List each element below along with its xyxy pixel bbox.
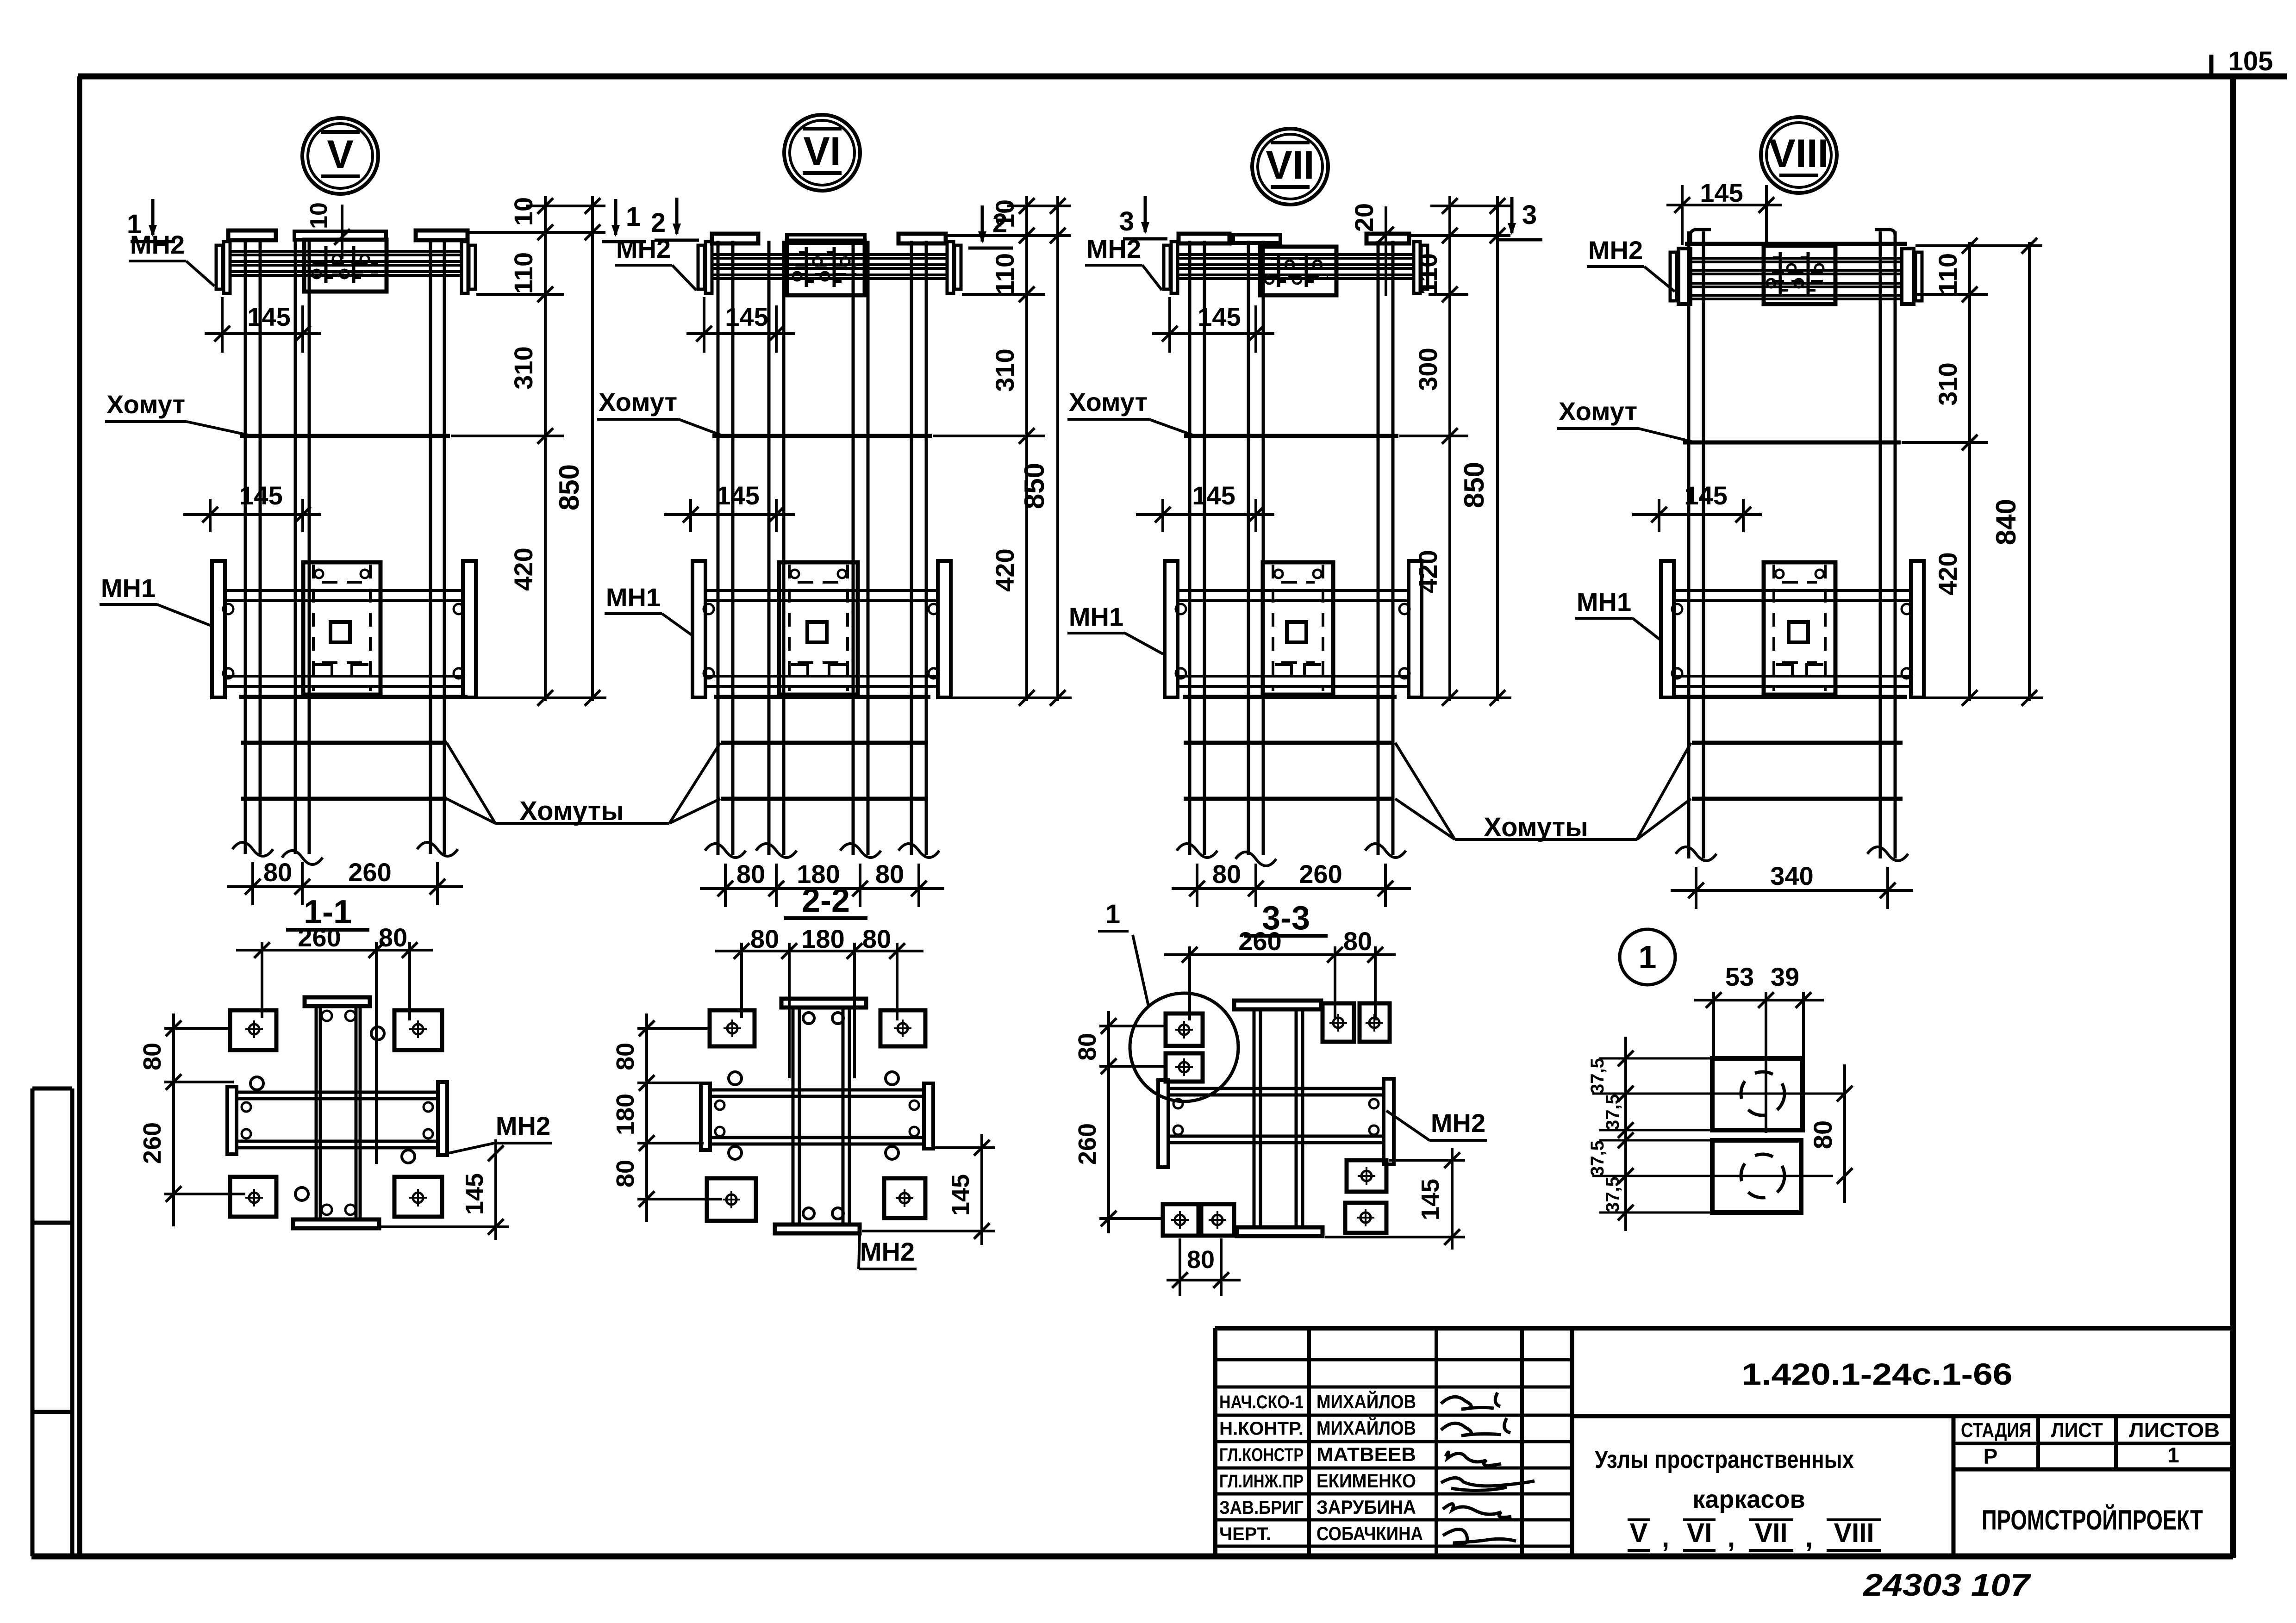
svg-text:260: 260 — [1238, 927, 1281, 956]
svg-text:145: 145 — [947, 1174, 974, 1216]
lower khomut ties of V — [241, 743, 447, 799]
svg-text:Хомуты: Хомуты — [1484, 812, 1588, 842]
svg-text:80: 80 — [1212, 859, 1241, 889]
svg-text:ЕКИМЕНКО: ЕКИМЕНКО — [1316, 1470, 1416, 1492]
section 3-3 beam MH2 — [1158, 1079, 1394, 1167]
svg-text:340: 340 — [1770, 861, 1813, 890]
section title 1-1 — [286, 894, 369, 931]
svg-text:110: 110 — [1933, 253, 1962, 295]
dim 145 upper of VI — [686, 297, 795, 353]
svg-text:310: 310 — [990, 348, 1019, 392]
svg-text:20: 20 — [1349, 203, 1379, 232]
dim 145 upper of VII — [1152, 297, 1274, 353]
section title 3-3 — [1244, 900, 1328, 937]
label Khomut of V — [105, 390, 248, 435]
section 2-2 label MH2 — [859, 1234, 917, 1269]
section 1-1 corner plate BL — [230, 1177, 276, 1217]
svg-text:V: V — [1630, 1518, 1648, 1548]
svg-text:37,5: 37,5 — [1603, 1176, 1623, 1213]
section 3-3 plates BL pair — [1163, 1204, 1234, 1236]
view circle V — [302, 118, 378, 194]
svg-text:3: 3 — [1522, 200, 1537, 230]
section mark 2 right of VI — [968, 205, 1013, 248]
svg-text:,: , — [1805, 1523, 1813, 1553]
svg-text:37,5: 37,5 — [1603, 1094, 1623, 1130]
section 3-3 label MH2 — [1386, 1108, 1487, 1140]
bottom dims of VIII — [1671, 861, 1913, 909]
elevation VII top splice box — [1260, 247, 1336, 295]
svg-text:145: 145 — [1416, 1179, 1444, 1220]
section mark 3 left of VII — [1119, 196, 1167, 239]
MH1 splice assembly of VII — [1165, 561, 1422, 697]
label Khomut of VIII — [1557, 397, 1691, 442]
svg-text:МН2: МН2 — [1086, 234, 1141, 263]
elevation VII column 3 — [1378, 241, 1393, 855]
svg-text:Хомут: Хомут — [106, 390, 185, 419]
svg-text:ЗАРУБИНА: ЗАРУБИНА — [1316, 1496, 1416, 1518]
section 3-3 plates TR pair — [1323, 1003, 1390, 1042]
svg-text:ЛИСТОВ: ЛИСТОВ — [2129, 1419, 2220, 1442]
elevation V dim 10 top centre — [306, 202, 350, 259]
svg-text:39: 39 — [1771, 962, 1799, 991]
svg-text:VII: VII — [1755, 1518, 1788, 1548]
khomut tie line of VI — [712, 434, 932, 438]
khomut tie line of VIII — [1683, 441, 1901, 445]
section 1-1 left dim chain — [138, 1014, 245, 1226]
section 1-1 label MH2 — [448, 1111, 552, 1153]
svg-text:145: 145 — [725, 302, 768, 331]
svg-text:МН1: МН1 — [101, 573, 156, 603]
svg-text:420: 420 — [990, 548, 1019, 591]
svg-text:105: 105 — [2228, 46, 2273, 76]
elevation V column 2 — [295, 241, 309, 854]
svg-text:260: 260 — [1073, 1123, 1101, 1165]
MH1 splice assembly of VIII — [1661, 561, 1924, 697]
svg-text:2-2: 2-2 — [802, 882, 850, 919]
label Khomut of VII — [1067, 387, 1192, 435]
svg-text:Хомут: Хомут — [1069, 387, 1148, 417]
svg-text:МН1: МН1 — [1577, 587, 1631, 616]
label Khomuty between V and VI — [447, 743, 720, 826]
view circle VI — [784, 115, 860, 191]
svg-text:МН1: МН1 — [606, 583, 661, 612]
svg-text:145: 145 — [716, 481, 759, 510]
detail 1 dim chain 53 39 — [1694, 962, 1824, 1133]
dim 145 lower of V — [183, 481, 321, 532]
svg-text:80: 80 — [875, 859, 904, 889]
svg-text:37,5: 37,5 — [1587, 1140, 1608, 1176]
elevation VII column 2 — [1248, 241, 1263, 855]
svg-text:80: 80 — [736, 859, 765, 889]
label MH2 of VII — [1085, 234, 1162, 290]
svg-text:1: 1 — [2167, 1443, 2179, 1467]
right dims of V — [451, 196, 606, 706]
frame left border — [77, 76, 82, 1558]
svg-text:80: 80 — [379, 923, 407, 952]
svg-text:260: 260 — [1299, 859, 1342, 889]
svg-text:840: 840 — [1990, 499, 2021, 545]
section 3-3 left dim chain — [1073, 1011, 1166, 1233]
section 3-3 bottom dim 80 — [1167, 1238, 1241, 1296]
column break marks of VII — [1177, 844, 1406, 866]
svg-text:80: 80 — [611, 1160, 639, 1188]
elevation VI column 2 — [769, 241, 784, 855]
label MH2 of VI — [615, 234, 696, 290]
detail 1 right dim 80 — [1808, 1064, 1853, 1203]
label MH2 of VIII — [1587, 236, 1675, 292]
elevation VI column 4 — [911, 241, 926, 855]
elevation V column 3 — [430, 241, 444, 854]
svg-text:ЗАВ.БРИГ: ЗАВ.БРИГ — [1219, 1498, 1304, 1518]
section 1-1 top dim chain — [236, 923, 433, 1164]
svg-text:80: 80 — [862, 924, 891, 953]
svg-text:Н.КОНТР.: Н.КОНТР. — [1219, 1418, 1304, 1439]
section 2-2 column I-beam — [775, 999, 866, 1233]
section mark 1 left of V — [127, 199, 175, 242]
section 2-2 loose bolts — [729, 1013, 898, 1219]
section 2-2 beam MH2 — [701, 1083, 933, 1150]
MH1 splice assembly of VI — [693, 561, 951, 697]
svg-text:Узлы пространственных: Узлы пространственных — [1595, 1446, 1854, 1474]
svg-text:80: 80 — [263, 858, 292, 887]
svg-text:МИХАЙЛОВ: МИХАЙЛОВ — [1316, 1390, 1416, 1412]
column break marks of V — [232, 842, 458, 864]
MH1 bottom chord line of VII — [1183, 695, 1397, 699]
elevation VIII column 2 — [1880, 231, 1895, 858]
svg-text:80: 80 — [611, 1043, 639, 1070]
elevation V MH2 cap assembly — [216, 230, 475, 293]
svg-text:VI: VI — [803, 129, 841, 174]
title block stadia headers — [1961, 1419, 2220, 1442]
dim 145 lower of VII — [1136, 481, 1274, 532]
svg-text:850: 850 — [554, 464, 585, 510]
bottom dims of VI — [700, 859, 944, 907]
title block middle divider — [1572, 1414, 2233, 1418]
section 3-3 detail circle 1 — [1098, 899, 1238, 1101]
elevation V top splice box — [304, 240, 387, 292]
section 2-2 top dim chain — [715, 924, 923, 1078]
right dims of VI — [933, 196, 1072, 706]
svg-text:ГЛ.КОНСТР: ГЛ.КОНСТР — [1219, 1445, 1304, 1465]
svg-text:1: 1 — [1639, 939, 1657, 975]
section 1-1 beam MH2 — [227, 1082, 447, 1155]
section 3-3 plates BR pair — [1345, 1160, 1386, 1233]
left attachment table — [32, 1088, 72, 1556]
svg-text:10: 10 — [990, 199, 1019, 228]
svg-text:310: 310 — [1933, 362, 1962, 405]
svg-text:МН2: МН2 — [496, 1111, 550, 1140]
title block doc number — [1742, 1357, 2013, 1391]
section 3-3 dim 145 right — [1325, 1148, 1465, 1250]
lower khomut ties of VI — [721, 743, 928, 799]
section 1-1 column I-beam — [293, 997, 379, 1228]
section 1-1 corner plate TR — [394, 1010, 442, 1050]
svg-text:каркасов: каркасов — [1692, 1486, 1805, 1513]
section 1-1 dim 145 right — [381, 1139, 509, 1240]
MH1 bottom chord line of VIII — [1676, 695, 1907, 699]
khomut tie line of V — [240, 434, 450, 438]
svg-text:МН2: МН2 — [860, 1237, 915, 1266]
svg-text:110: 110 — [990, 253, 1019, 295]
svg-text:110: 110 — [1413, 253, 1442, 295]
svg-text:145: 145 — [247, 302, 290, 331]
svg-text:МН2: МН2 — [130, 230, 185, 259]
svg-text:37,5: 37,5 — [1587, 1058, 1608, 1094]
title block signatures — [1441, 1393, 1535, 1544]
column break marks of VIII — [1676, 847, 1908, 861]
dim 145 lower of VI — [664, 481, 795, 532]
view circle VIII — [1761, 117, 1837, 193]
title block org name — [1982, 1505, 2203, 1536]
elevation VIII MH2 cap assembly — [1670, 230, 1922, 304]
svg-text:80: 80 — [750, 924, 779, 953]
khomut tie line of VII — [1184, 434, 1398, 438]
section title 2-2 — [784, 882, 867, 919]
view circle VII — [1252, 129, 1328, 205]
bottom dims of V — [227, 858, 463, 905]
svg-text:Хомут: Хомут — [599, 387, 677, 417]
svg-text:260: 260 — [298, 923, 341, 952]
elevation VI MH2 cap assembly — [698, 234, 961, 293]
frame top border — [78, 74, 2287, 80]
svg-text:80: 80 — [1808, 1120, 1837, 1149]
svg-text:145: 145 — [461, 1173, 488, 1215]
frame bottom border — [31, 1554, 2233, 1560]
sheet page number 105 — [2211, 46, 2273, 77]
svg-text:МАТВЕЕВ: МАТВЕЕВ — [1316, 1443, 1416, 1465]
title block stadia values — [1984, 1443, 2179, 1468]
svg-text:180: 180 — [801, 924, 844, 953]
svg-text:300: 300 — [1413, 348, 1442, 391]
svg-text:10: 10 — [509, 197, 538, 226]
MH1 bottom chord line of VI — [714, 695, 930, 699]
svg-text:Хомут: Хомут — [1559, 397, 1637, 426]
section 1-1 loose bolts — [250, 1011, 415, 1215]
svg-text:,: , — [1662, 1523, 1669, 1553]
svg-text:145: 145 — [239, 481, 282, 510]
section 1-1 corner plate BR — [394, 1177, 442, 1217]
section 2-2 left dim chain — [611, 1014, 722, 1222]
svg-text:V: V — [327, 132, 353, 177]
label MH2 of V — [129, 230, 214, 286]
svg-text:3: 3 — [1119, 206, 1134, 236]
svg-text:110: 110 — [509, 252, 538, 294]
dim 20 aux line of VII — [1349, 203, 1394, 296]
title block signature table grid — [1215, 1328, 1572, 1556]
dim 145 lower of VIII — [1632, 481, 1762, 532]
svg-text:145: 145 — [1192, 481, 1235, 510]
svg-text:1: 1 — [626, 202, 641, 232]
elevation VI column 1 — [718, 241, 733, 855]
svg-text:ПРОМСТРОЙПРОЕКТ: ПРОМСТРОЙПРОЕКТ — [1982, 1505, 2203, 1536]
detail circle mark 1 — [1620, 929, 1675, 985]
svg-text:СОБАЧКИНА: СОБАЧКИНА — [1316, 1523, 1423, 1544]
svg-text:80: 80 — [1187, 1246, 1215, 1274]
svg-text:850: 850 — [1019, 463, 1050, 509]
bottom dims of VII — [1172, 859, 1411, 907]
svg-text:80: 80 — [138, 1043, 166, 1070]
svg-text:ЧЕРТ.: ЧЕРТ. — [1219, 1524, 1271, 1544]
section mark 3 right of VII — [1498, 197, 1542, 240]
handwritten archive number — [1862, 1567, 2032, 1603]
svg-text:VI: VI — [1687, 1518, 1712, 1548]
lower khomut ties of VII — [1184, 743, 1394, 799]
detail 1 upper plate — [1592, 1058, 1845, 1130]
elevation VI top splice box — [787, 241, 865, 295]
svg-text:80: 80 — [1073, 1033, 1101, 1061]
section mark 2 left of VI — [651, 198, 699, 240]
elevation VI column 3 — [853, 241, 868, 855]
detail 1 lower plate — [1592, 1140, 1833, 1213]
title block signatories — [1219, 1390, 1423, 1544]
svg-text:1.420.1-24с.1-66: 1.420.1-24с.1-66 — [1742, 1357, 2013, 1391]
right dims of VII — [1399, 196, 1511, 706]
svg-text:1: 1 — [1105, 899, 1120, 929]
label MH1 of VII — [1067, 602, 1164, 654]
right dims of VIII — [1902, 238, 2043, 706]
svg-text:VIII: VIII — [1769, 131, 1828, 176]
svg-text:МН1: МН1 — [1069, 602, 1123, 631]
section 1-1 corner plate TL — [230, 1010, 276, 1050]
section 2-2 corner plate TR — [880, 1010, 925, 1046]
svg-text:53: 53 — [1725, 962, 1754, 991]
MH1 bottom chord line of V — [239, 695, 468, 699]
svg-text:VII: VII — [1266, 143, 1314, 187]
title block sheet numerals V VI VII VIII — [1628, 1518, 1881, 1553]
svg-text:Хомуты: Хомуты — [519, 796, 624, 826]
svg-text:850: 850 — [1459, 462, 1490, 508]
section 3-3 column I-beam — [1234, 1001, 1323, 1236]
MH1 splice assembly of V — [212, 561, 476, 697]
svg-text:80: 80 — [1343, 927, 1372, 956]
section 2-2 corner plate BL — [707, 1178, 756, 1221]
section 2-2 corner plate TL — [710, 1010, 755, 1046]
label MH1 of VI — [605, 583, 692, 635]
label MH1 of VIII — [1575, 587, 1660, 640]
elevation VIII top splice box — [1764, 246, 1835, 304]
svg-text:ЛИСТ: ЛИСТ — [2051, 1419, 2103, 1442]
svg-text:420: 420 — [1933, 552, 1962, 595]
svg-text:Р: Р — [1984, 1444, 1998, 1468]
frame right border — [2230, 76, 2236, 1558]
section 3-3 plates TL pair — [1166, 1014, 1203, 1082]
title block stadia grid — [1953, 1416, 2233, 1556]
svg-text:24303 107: 24303 107 — [1862, 1567, 2032, 1603]
elevation V column 1 — [245, 241, 260, 854]
svg-text:420: 420 — [1413, 550, 1442, 593]
svg-text:ГЛ.ИНЖ.ПР: ГЛ.ИНЖ.ПР — [1219, 1471, 1304, 1492]
svg-text:145: 145 — [1198, 302, 1241, 331]
svg-text:,: , — [1728, 1523, 1735, 1553]
elevation VII column 1 — [1190, 241, 1204, 855]
column break marks of VI — [705, 844, 939, 858]
section 3-3 top dim chain — [1164, 927, 1396, 1020]
section 2-2 corner plate BR — [884, 1178, 925, 1218]
svg-text:180: 180 — [611, 1094, 639, 1135]
svg-text:260: 260 — [348, 858, 391, 887]
svg-text:10: 10 — [306, 202, 332, 229]
lower khomut ties of VIII — [1692, 743, 1903, 799]
svg-text:310: 310 — [509, 346, 538, 389]
svg-text:СТАДИЯ: СТАДИЯ — [1961, 1419, 2031, 1442]
section mark 1 right of V — [602, 199, 646, 242]
svg-text:2: 2 — [651, 208, 666, 238]
dim 145 upper of V — [205, 297, 321, 353]
svg-text:НАЧ.СКО-1: НАЧ.СКО-1 — [1219, 1392, 1304, 1412]
svg-text:145: 145 — [1684, 481, 1727, 510]
label MH1 of V — [100, 573, 211, 626]
svg-text:260: 260 — [138, 1122, 166, 1164]
dim 145 top of VIII — [1666, 178, 1782, 248]
label Khomut of VI — [597, 387, 721, 435]
svg-text:МН2: МН2 — [1588, 236, 1643, 265]
section 2-2 dim 145 right — [862, 1134, 995, 1245]
svg-text:145: 145 — [1700, 178, 1743, 207]
elevation VII MH2 cap assembly — [1164, 234, 1428, 293]
svg-text:420: 420 — [509, 547, 538, 591]
svg-text:МН2: МН2 — [616, 234, 671, 263]
elevation VIII column 1 — [1689, 231, 1703, 858]
svg-text:МИХАЙЛОВ: МИХАЙЛОВ — [1316, 1417, 1416, 1439]
svg-text:VIII: VIII — [1834, 1518, 1874, 1548]
title block drawing title — [1595, 1446, 1854, 1513]
label Khomuty between VII and VIII — [1395, 743, 1691, 842]
title block outline — [1215, 1328, 2233, 1556]
detail 1 left dims 37,5 — [1587, 1037, 1713, 1231]
svg-text:МН2: МН2 — [1431, 1108, 1485, 1138]
